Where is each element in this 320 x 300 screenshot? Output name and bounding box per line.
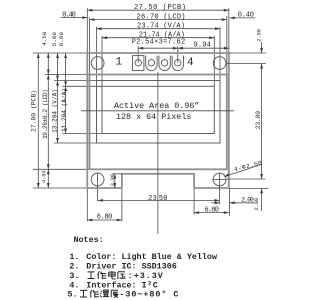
svg-text:6.60: 6.60 [58,32,65,47]
svg-text:2.00: 2.00 [257,29,263,42]
mounting hole top-left [91,57,104,70]
svg-text:2.00: 2.00 [241,196,254,203]
svg-text:6.80: 6.80 [205,207,219,215]
extension PCB left down [86,189,88,221]
horizontal centerline [81,110,234,112]
dimension 6.80 left [87,213,122,221]
extension notch right step down [193,189,195,215]
svg-text:4: 4 [187,57,194,69]
dimension 21.74 (A/A) [102,31,214,39]
dimension 23.74 (V/A) [97,22,221,30]
extension line A/A top left [63,85,103,87]
extension line V/A bottom left [54,142,97,144]
extension line pin4 up [177,46,179,63]
extension line PCB right up [228,8,230,53]
extension line LCD bottom left [33,168,90,170]
extension line PCB bottom right [230,187,269,189]
pad 3 [159,56,170,71]
dimension 2.00 bottom-right vertical [254,188,263,211]
svg-text:26.70 (LCD): 26.70 (LCD) [137,13,186,21]
dimension 0.40 right [230,12,256,20]
dimension 2.00 top-right [257,29,263,53]
extension hole bottom-right down [219,173,221,204]
extension line V/A top left [54,80,97,82]
svg-text:Notes:: Notes: [74,235,104,245]
dimension P2.54x3=7.62 [132,38,186,49]
dimension 27.80 (PCB) vertical [30,53,39,188]
svg-text:2.00: 2.00 [254,198,260,211]
extension line pin1 up [137,46,139,63]
dimension 27.50 (PCB) [87,4,229,12]
extension line PCB bottom left [33,187,87,189]
svg-text:27.50 (PCB): 27.50 (PCB) [134,4,186,12]
extension line LCD right up [226,16,228,75]
extension line A/A bottom left [63,133,103,135]
pad hole 1 [135,60,141,66]
note 5 CJK gongzuowendu [80,290,118,298]
svg-text:50: 50 [159,195,168,203]
svg-text:0.40: 0.40 [62,11,76,19]
dimension 11.204 (A/A) vertical [61,86,68,133]
dimension 5.60 vertical [51,32,59,81]
LCD glass outline [90,75,227,170]
svg-text:P2.54×3=7.62: P2.54×3=7.62 [132,38,186,46]
svg-text:1: 1 [116,57,123,69]
dimension 9.94 [178,41,229,49]
pad 1 (square) [133,56,144,71]
dimension 26.70 (LCD) [90,13,227,21]
svg-text:0.40: 0.40 [238,12,254,20]
hole leader 4-2.50 [224,159,263,176]
svg-text:-30~+80° C: -30~+80° C [119,290,178,300]
dimension 3.00 [110,174,122,188]
mounting hole bottom-left [91,173,104,186]
svg-text:23.80: 23.80 [255,111,262,130]
svg-text:Color: Light Blue & Yellow: Color: Light Blue & Yellow [86,252,217,262]
extension notch left step down [121,189,123,221]
mounting hole top-right [213,57,226,70]
vertical centerline [157,72,159,234]
extension hole bottom-left down [97,173,99,201]
pad hole 2 [148,60,154,66]
dimension 23.50 [98,195,220,203]
note 3 CJK gongzuodianya [88,271,126,279]
svg-text:5.60: 5.60 [51,32,58,47]
svg-text:Active Area 0.96”: Active Area 0.96” [114,101,199,111]
svg-text:23.74 (V/A): 23.74 (V/A) [137,22,185,30]
dimension 23.80 right [255,64,263,180]
svg-text:5.: 5. [68,290,78,300]
svg-text:4.04: 4.04 [41,170,47,183]
svg-text:2: 2 [148,280,151,287]
extension line V/A right up [219,27,221,81]
extension line PCB top right [229,52,266,54]
dimension 0.40 left [61,11,88,19]
svg-text:4.50: 4.50 [41,31,48,46]
pad hole 4 [175,60,181,66]
svg-text:23: 23 [148,195,157,203]
extension line V/A left up [96,27,98,81]
PCB outline [87,53,229,188]
mounting hole bottom-right [213,173,226,186]
pad 2 [146,56,157,71]
svg-text:11.204 (A/A): 11.204 (A/A) [61,88,68,132]
extension line LCD top left [45,74,90,76]
svg-text:27.80 (PCB): 27.80 (PCB) [30,90,37,132]
extension line LCD left up [89,18,91,75]
pad 4 [172,56,183,71]
dimension 13.204 (V/A) vertical [52,81,59,144]
pad hole 3 [161,60,167,66]
A/A rectangle [102,86,214,133]
extension line PCB left up [86,8,88,53]
dimension 4.50 vertical [41,31,50,74]
dimension 19.26+-0.2 (LCD) vertical [42,75,50,170]
svg-text:1.: 1. [69,252,79,262]
dimension 4.04 vertical [41,169,49,188]
svg-text:128 x 64 Pixels: 128 x 64 Pixels [116,112,191,122]
extension line A/A left up [101,36,103,87]
bottom-right hole cross [212,179,226,181]
dimension 6.80 right [194,207,229,215]
extension PCB right down [229,188,231,216]
extension line bottom hole center right [227,178,266,180]
extension line A/A right up [213,36,215,87]
extension line top hole center right [227,63,267,65]
dimension 6.60 vertical [58,32,67,87]
V/A rectangle [97,81,221,144]
extension line PCB top left [33,52,87,54]
dimension 2.00 bottom horizontal [212,196,255,204]
